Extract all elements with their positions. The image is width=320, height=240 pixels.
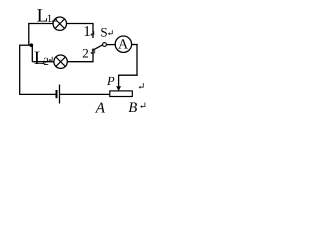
svg-text:A: A (118, 37, 129, 52)
paragraph mark after L1 (53, 17, 56, 21)
paragraph mark after L2 (50, 57, 52, 61)
wire branch 2 vertical from junction (31, 45, 33, 62)
wire bottom right horizontal (60, 93, 110, 95)
svg-text:B: B (128, 100, 137, 116)
svg-text:A: A (95, 101, 106, 117)
wire top left horizontal (29, 23, 93, 25)
wire ammeter right (132, 44, 138, 46)
wire left lower vertical (19, 45, 21, 95)
paragraph mark right of rheostat (141, 83, 144, 87)
resistor rheostat body (110, 91, 133, 97)
wire slider top horizontal (119, 74, 138, 76)
battery cell positive plate (59, 85, 61, 104)
node junction dot (30, 43, 34, 47)
svg-text:1: 1 (47, 13, 53, 25)
wire terminal 1 vertical (92, 23, 94, 38)
ammeter A1 circle (115, 36, 131, 52)
wire left upper vertical (28, 23, 30, 45)
wire right vertical (136, 44, 138, 76)
lamp L1 (53, 17, 66, 30)
wire terminal 2 vertical (92, 49, 94, 63)
wire pivot to ammeter (107, 44, 117, 46)
svg-text:2: 2 (43, 56, 49, 68)
paragraph mark arrowhead after L1 (52, 20, 54, 23)
paragraph mark arrowhead after S (108, 32, 110, 35)
svg-text:1: 1 (83, 24, 91, 40)
battery cell negative plate (56, 90, 58, 98)
slider arrowhead P (116, 86, 121, 91)
paragraph mark arrowhead after L2 (48, 59, 50, 62)
wire left jog horizontal (20, 44, 33, 46)
paragraph mark after terminal 1 (92, 31, 94, 34)
paragraph mark after B (142, 103, 145, 107)
paragraph mark arrowhead after terminal 1 (90, 33, 92, 36)
paragraph mark after S (110, 30, 113, 34)
svg-text:S: S (100, 25, 107, 40)
switch S pivot (103, 43, 107, 47)
svg-text:2: 2 (82, 46, 89, 61)
paragraph mark arrowhead after terminal 2 (90, 51, 92, 54)
svg-text:P: P (106, 74, 115, 88)
switch S blade (92, 45, 103, 51)
paragraph mark arrowhead right of rheostat (139, 86, 141, 89)
wire slider vertical (118, 75, 120, 87)
lamp L2 (54, 55, 67, 68)
wire branch 2 horizontal (32, 61, 93, 63)
wire bottom left horizontal (19, 93, 56, 95)
paragraph mark arrowhead after B (140, 105, 142, 108)
paragraph mark after terminal 2 (92, 49, 95, 53)
